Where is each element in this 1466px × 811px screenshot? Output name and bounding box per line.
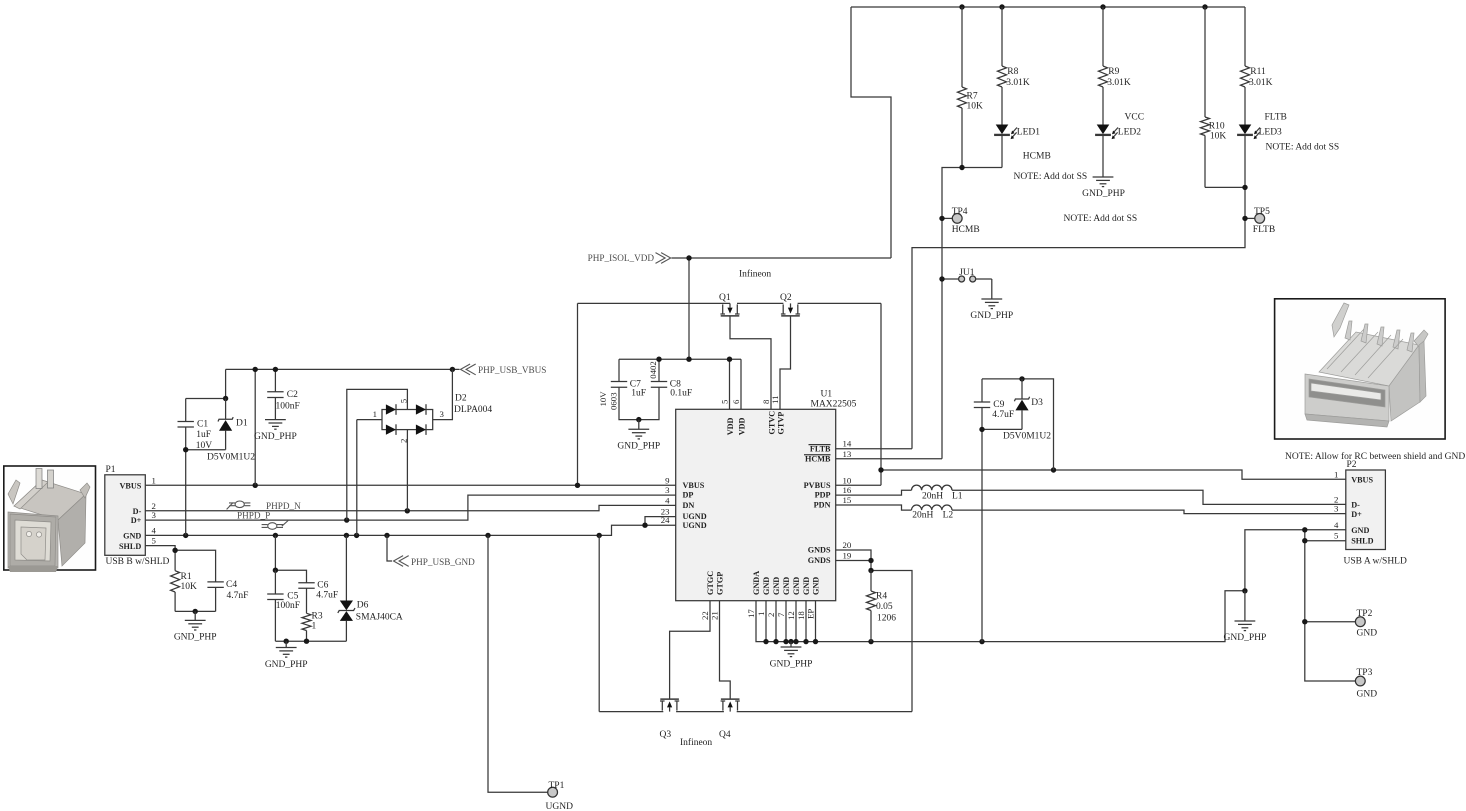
junction dots P2 shield net	[1302, 527, 1307, 532]
svg-text:GND_PHP: GND_PHP	[1082, 189, 1125, 199]
svg-text:HCMB: HCMB	[805, 455, 831, 464]
svg-text:21: 21	[710, 611, 720, 620]
svg-text:USB A w/SHLD: USB A w/SHLD	[1344, 557, 1407, 567]
LED LED1	[996, 125, 1009, 135]
svg-text:UGND: UGND	[683, 521, 707, 530]
net label PHP_USB_VBUS	[461, 364, 471, 375]
svg-text:10: 10	[843, 475, 852, 485]
transistor Q4	[722, 701, 724, 711]
svg-text:3.01K: 3.01K	[1107, 78, 1131, 88]
wire PHP_ISOL_VDD	[672, 257, 892, 259]
wire C1 D1 top	[186, 398, 226, 400]
svg-text:4.7uF: 4.7uF	[992, 410, 1014, 420]
resistor R7	[961, 7, 963, 87]
svg-text:C2: C2	[287, 390, 298, 400]
svg-text:R8: R8	[1007, 67, 1018, 77]
svg-text:10K: 10K	[967, 102, 984, 112]
svg-text:22: 22	[700, 611, 710, 620]
junction dot PHP_ISOL_VDD	[686, 255, 691, 260]
svg-text:D5V0M1U2: D5V0M1U2	[1003, 432, 1051, 442]
capacitor C2	[267, 391, 283, 393]
svg-text:16: 16	[843, 485, 852, 495]
svg-text:4: 4	[665, 495, 670, 505]
svg-text:3.01K: 3.01K	[1006, 78, 1030, 88]
wire shield RC top	[274, 535, 276, 570]
junction dot shield RC	[273, 568, 278, 573]
svg-text:R10: R10	[1209, 121, 1225, 131]
capacitor C7	[611, 381, 627, 383]
svg-text:GND_PHP: GND_PHP	[617, 442, 660, 452]
svg-text:GND: GND	[812, 577, 821, 595]
svg-text:Q2: Q2	[780, 293, 792, 303]
svg-text:C9: C9	[993, 400, 1004, 410]
svg-text:10K: 10K	[1210, 131, 1227, 141]
wire HCMB net	[942, 168, 1002, 459]
svg-text:GTGP: GTGP	[716, 572, 725, 595]
ground GND_PHP at JU1	[981, 298, 1002, 300]
svg-text:20nH: 20nH	[912, 511, 933, 521]
svg-text:L1: L1	[952, 491, 963, 501]
svg-text:100nF: 100nF	[276, 401, 300, 411]
svg-text:PDN: PDN	[814, 501, 831, 510]
jumper JU1	[959, 276, 965, 282]
wire Q3 gate to GTGC	[670, 601, 710, 699]
svg-text:VBUS: VBUS	[119, 482, 141, 491]
svg-text:PDP: PDP	[815, 491, 831, 500]
svg-text:4: 4	[1334, 520, 1339, 530]
svg-text:GND_PHP: GND_PHP	[174, 633, 217, 643]
svg-text:FLTB: FLTB	[1265, 113, 1287, 123]
LED LED2	[1097, 125, 1110, 135]
svg-text:LED3: LED3	[1259, 128, 1282, 138]
svg-text:3.01K: 3.01K	[1249, 78, 1273, 88]
svg-text:1uF: 1uF	[196, 430, 211, 440]
junction dots top bus	[959, 4, 964, 9]
capacitor C8	[651, 381, 667, 383]
junction dots FLTB net	[1242, 185, 1247, 190]
svg-text:D-: D-	[133, 507, 142, 516]
svg-text:C5: C5	[287, 591, 298, 601]
transistor Q3	[661, 701, 663, 711]
svg-text:TP1: TP1	[549, 781, 565, 791]
svg-text:LED1: LED1	[1017, 128, 1040, 138]
wire TP1 branch	[488, 535, 548, 792]
svg-text:TP3: TP3	[1357, 668, 1373, 678]
svg-text:D-: D-	[1351, 500, 1360, 509]
resistor R9	[1102, 7, 1104, 66]
svg-text:14: 14	[843, 439, 852, 449]
svg-text:TP2: TP2	[1357, 609, 1373, 619]
resistor R4	[870, 571, 872, 592]
svg-text:HCMB: HCMB	[952, 225, 980, 235]
svg-text:DP: DP	[683, 491, 694, 500]
wire C1 D1 bottom to UGND	[186, 449, 226, 451]
junction dots UGND net	[642, 523, 647, 528]
svg-text:DLPA004: DLPA004	[454, 405, 492, 415]
svg-text:1: 1	[1334, 469, 1338, 479]
transistor Q2	[782, 304, 784, 314]
svg-text:11: 11	[770, 396, 780, 404]
wire top VCC bus	[851, 6, 1245, 8]
svg-text:0603: 0603	[609, 392, 619, 410]
svg-text:VDD: VDD	[737, 417, 746, 435]
svg-text:GTVC: GTVC	[767, 411, 776, 435]
testpoint TP4	[952, 214, 962, 224]
svg-text:GND: GND	[792, 577, 801, 595]
LED LED3	[1239, 125, 1252, 135]
svg-text:GND: GND	[782, 577, 791, 595]
svg-text:R7: R7	[967, 92, 978, 102]
svg-text:GND: GND	[1351, 526, 1369, 535]
svg-text:7: 7	[776, 612, 786, 617]
svg-text:PHPD_N: PHPD_N	[266, 501, 301, 511]
svg-text:USB B w/SHLD: USB B w/SHLD	[106, 557, 170, 567]
svg-text:6: 6	[731, 399, 741, 404]
inductor L1	[912, 485, 952, 490]
svg-text:GND: GND	[1357, 689, 1378, 699]
svg-text:GND: GND	[772, 577, 781, 595]
junction dots PVBUS net	[878, 467, 883, 472]
svg-text:PHP_USB_VBUS: PHP_USB_VBUS	[478, 365, 546, 375]
svg-text:20: 20	[843, 540, 852, 550]
svg-text:1206: 1206	[877, 614, 896, 624]
junction dots PHP_USB_VBUS net	[253, 367, 258, 372]
junction dots GND_PHP bus	[763, 639, 768, 644]
svg-text:GND_PHP: GND_PHP	[1224, 633, 1267, 643]
svg-text:5: 5	[720, 399, 730, 404]
svg-text:GNDA: GNDA	[752, 571, 761, 595]
svg-text:NOTE: Add dot SS: NOTE: Add dot SS	[1014, 172, 1088, 182]
diode D1 zener D5V0M1U2	[225, 399, 227, 420]
svg-text:10V: 10V	[598, 391, 608, 407]
svg-text:PHP_USB_GND: PHP_USB_GND	[411, 557, 475, 567]
svg-text:4: 4	[152, 525, 157, 535]
junction dots VDD rail	[656, 357, 661, 362]
capacitor C9	[974, 401, 990, 403]
diode D6 TVS SMAJ40CA	[345, 535, 347, 600]
ground GND_PHP under C5	[285, 641, 287, 647]
wire HCMB pin stub	[836, 458, 942, 460]
svg-text:GND_PHP: GND_PHP	[970, 311, 1013, 321]
svg-text:Infineon: Infineon	[739, 269, 771, 280]
diode array D2 DLPA004	[382, 410, 433, 430]
resistor R10	[1204, 7, 1206, 117]
svg-text:PHP_ISOL_VDD: PHP_ISOL_VDD	[588, 253, 655, 263]
svg-text:GND_PHP: GND_PHP	[770, 659, 813, 669]
capacitor C1	[178, 421, 194, 423]
inductor L2	[912, 505, 952, 510]
ground GND_PHP under U1	[790, 642, 792, 647]
svg-text:1: 1	[373, 409, 377, 419]
svg-text:D5V0M1U2: D5V0M1U2	[207, 453, 255, 463]
svg-text:GND_PHP: GND_PHP	[265, 660, 308, 670]
svg-text:17: 17	[746, 609, 756, 618]
wire PDP stub	[836, 490, 912, 495]
svg-text:GND: GND	[1357, 628, 1378, 638]
wire shield RC bottom	[275, 640, 346, 642]
testpoint TP3	[1355, 676, 1365, 686]
svg-text:TP4: TP4	[952, 207, 968, 217]
wire VBUS net	[145, 484, 675, 486]
junction dot C1 D1 bottom	[183, 447, 188, 452]
svg-text:3: 3	[152, 510, 157, 520]
svg-text:HCMB: HCMB	[1023, 151, 1051, 161]
connector P1 body	[105, 475, 146, 556]
junction dots VBUS net	[253, 483, 258, 488]
resistor R3	[302, 613, 311, 630]
wire P2 SHLD pin5	[1305, 540, 1346, 542]
junction dots shield RC bottom	[284, 639, 289, 644]
wire DP net D+	[145, 495, 675, 520]
svg-text:GNDS: GNDS	[808, 546, 831, 555]
svg-text:GND: GND	[762, 577, 771, 595]
svg-text:D2: D2	[455, 394, 467, 404]
svg-text:JU1: JU1	[959, 268, 975, 278]
wire VBUS-PVBUS link	[578, 302, 731, 304]
testpoint TP1	[548, 787, 558, 797]
junction dot DP net	[344, 517, 349, 522]
svg-text:SHLD: SHLD	[1351, 537, 1373, 546]
wire UGND bottom bus	[598, 535, 600, 711]
junction dots C9 D3	[1019, 376, 1024, 381]
svg-text:1: 1	[152, 475, 156, 485]
svg-text:0.1uF: 0.1uF	[670, 388, 692, 398]
wire shield to testpoints	[1305, 530, 1356, 681]
wire D2 pin1 to UGND	[357, 420, 382, 536]
svg-text:VDD: VDD	[726, 417, 735, 435]
svg-text:1uF: 1uF	[631, 388, 646, 398]
svg-text:13: 13	[843, 449, 852, 459]
ground GND_PHP near P2	[1244, 591, 1246, 621]
svg-text:L2: L2	[943, 511, 954, 521]
svg-text:Q3: Q3	[660, 730, 672, 740]
svg-text:VBUS: VBUS	[683, 481, 705, 490]
svg-text:GNDS: GNDS	[808, 556, 831, 565]
junction dot C1 D1 top	[223, 396, 228, 401]
ground GND_PHP under LED2	[1093, 176, 1114, 178]
svg-text:SHLD: SHLD	[119, 542, 141, 551]
svg-text:PVBUS: PVBUS	[804, 481, 831, 490]
svg-text:0402: 0402	[648, 361, 658, 379]
svg-text:20nH: 20nH	[922, 491, 943, 501]
wire FLTB net	[912, 135, 1245, 449]
svg-text:GTVP: GTVP	[776, 412, 785, 435]
svg-text:D1: D1	[236, 418, 248, 428]
svg-text:GND: GND	[123, 532, 141, 541]
svg-text:4.7nF: 4.7nF	[227, 591, 249, 601]
junction dots GNDS net	[868, 558, 873, 563]
svg-text:5: 5	[152, 536, 157, 546]
testpoint TP2	[1355, 617, 1365, 627]
junction dots HCMB net	[959, 165, 964, 170]
wire GNDS net	[836, 550, 871, 571]
op-amp U1 MAX22505 body	[676, 409, 836, 600]
svg-text:Q4: Q4	[719, 730, 731, 740]
svg-text:Q1: Q1	[719, 293, 731, 303]
resistor R8	[1001, 7, 1003, 66]
svg-text:GND: GND	[802, 577, 811, 595]
ground GND_PHP under R1 C4	[194, 611, 196, 620]
svg-text:3: 3	[440, 409, 445, 419]
svg-text:SMAJ40CA: SMAJ40CA	[356, 613, 403, 623]
wire VDD caps rail	[619, 358, 741, 360]
svg-text:D3: D3	[1031, 398, 1043, 408]
svg-text:PHPD_P: PHPD_P	[237, 511, 270, 521]
svg-text:NOTE: Add dot SS: NOTE: Add dot SS	[1064, 214, 1138, 224]
resistor R11	[1244, 7, 1246, 66]
svg-text:100nF: 100nF	[276, 601, 300, 611]
svg-text:1: 1	[756, 612, 766, 616]
svg-text:NOTE: Allow for RC between shi: NOTE: Allow for RC between shield and GN…	[1285, 451, 1465, 462]
svg-text:0.05: 0.05	[876, 602, 893, 612]
wire D2 pin2 to DN	[406, 430, 408, 511]
diode D3 zener	[1021, 379, 1023, 399]
capacitor C6	[298, 582, 314, 584]
svg-text:15: 15	[843, 495, 852, 505]
testpoint TP5	[1255, 214, 1265, 224]
wire SHLD net	[145, 546, 175, 551]
diff pair marker PHPD_P	[262, 520, 289, 529]
junction dot DN net	[405, 508, 410, 513]
svg-text:R4: R4	[876, 592, 887, 602]
svg-text:C6: C6	[317, 581, 328, 591]
svg-text:UGND: UGND	[546, 802, 574, 811]
ground GND_PHP under C7 C8	[638, 420, 640, 430]
svg-text:MAX22505: MAX22505	[811, 400, 857, 410]
wire D2 pin3 to PHP_USB_VBUS	[433, 369, 453, 419]
net label PHP_USB_GND	[387, 535, 392, 561]
photo USB A connector	[1275, 299, 1446, 439]
wire P2 GND pin4	[1245, 530, 1346, 591]
wire C9 D3 rail	[982, 379, 1054, 470]
svg-text:R11: R11	[1250, 67, 1266, 77]
svg-text:C1: C1	[197, 420, 208, 430]
svg-text:10K: 10K	[181, 582, 198, 592]
wire R1 C4 bottom	[175, 610, 216, 612]
junction dot SHLD net	[172, 548, 177, 553]
wire PHP_ISOL_VDD riser jog	[851, 7, 891, 258]
svg-text:GND_PHP: GND_PHP	[254, 432, 297, 442]
wire PDN stub	[836, 505, 912, 510]
wire DN net D-	[145, 505, 675, 510]
wire JU1 to ground	[976, 278, 992, 280]
svg-text:LED2: LED2	[1118, 128, 1141, 138]
svg-text:FLTB: FLTB	[1253, 225, 1275, 235]
svg-text:R3: R3	[312, 612, 323, 622]
svg-text:VBUS: VBUS	[1351, 476, 1373, 485]
svg-text:19: 19	[843, 551, 852, 561]
svg-text:Infineon: Infineon	[680, 737, 712, 748]
capacitor C5	[274, 570, 276, 594]
capacitor C4	[207, 581, 223, 583]
svg-text:U1: U1	[821, 390, 833, 400]
svg-text:R9: R9	[1108, 67, 1119, 77]
svg-text:R1: R1	[181, 572, 192, 582]
svg-text:TP5: TP5	[1254, 207, 1270, 217]
svg-text:4.7uF: 4.7uF	[316, 591, 338, 601]
wire Q2 gate to GTVP	[780, 316, 791, 409]
svg-text:3: 3	[665, 485, 670, 495]
junction dot R1 C4 bottom	[193, 609, 198, 614]
wire FLTB pin stub	[836, 448, 912, 450]
svg-text:DN: DN	[683, 501, 695, 510]
svg-text:VCC: VCC	[1125, 113, 1145, 123]
svg-text:18: 18	[796, 611, 806, 620]
svg-text:2: 2	[766, 613, 776, 617]
photo USB B connector	[4, 466, 96, 572]
svg-text:FLTB: FLTB	[810, 444, 831, 453]
svg-text:5: 5	[1334, 531, 1339, 541]
svg-text:1: 1	[312, 621, 317, 631]
wire Q4 gate to GTGP	[720, 601, 731, 699]
wire PVBUS net	[836, 484, 881, 486]
wire D2 pin5 to DP	[347, 389, 408, 520]
wire UGND net	[145, 525, 675, 535]
transistor Q1	[722, 304, 724, 314]
svg-text:GTGC: GTGC	[706, 571, 715, 595]
svg-text:12: 12	[786, 611, 796, 620]
wire PDN to P2	[952, 510, 1346, 513]
svg-text:3: 3	[1334, 504, 1339, 514]
wire Q1 gate to GTVC	[730, 316, 771, 409]
wire GND_PHP bus	[756, 591, 1245, 642]
diff pair marker PHPD_N	[227, 501, 251, 509]
svg-text:D+: D+	[1351, 510, 1362, 519]
wire PHP_USB_VBUS net	[226, 368, 460, 370]
svg-text:D6: D6	[357, 601, 369, 611]
svg-text:D+: D+	[131, 516, 142, 525]
resistor R1	[171, 571, 180, 592]
svg-text:9: 9	[665, 475, 670, 485]
connector P2 body	[1346, 470, 1386, 550]
svg-text:EP: EP	[806, 609, 816, 619]
wire PDP to P2	[952, 490, 1346, 504]
svg-text:P1: P1	[106, 465, 116, 475]
ground GND_PHP under C2	[265, 419, 286, 421]
svg-text:NOTE: Add dot SS: NOTE: Add dot SS	[1266, 142, 1340, 152]
svg-text:C4: C4	[226, 580, 237, 590]
